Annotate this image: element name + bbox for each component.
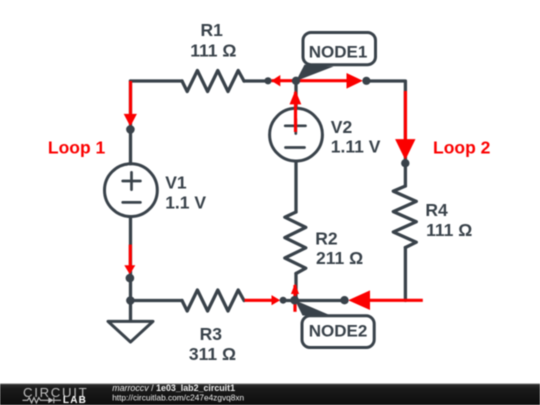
svg-text:311 Ω: 311 Ω	[189, 344, 236, 364]
wire V1 bottom	[129, 217, 132, 301]
svg-text:R4: R4	[425, 200, 448, 220]
node dot F	[340, 296, 348, 304]
svg-text:NODE1: NODE1	[309, 43, 368, 62]
resistor R4	[393, 186, 416, 248]
wire red top horizontal	[272, 79, 348, 82]
arrow down at V1 bottom	[124, 265, 135, 274]
node dot D2 (NODE2)	[290, 296, 299, 305]
wire R4 bottom lead	[404, 248, 407, 301]
red current wires	[130, 81, 423, 312]
arrow right at bottom row	[272, 295, 281, 305]
svg-text:1.1 V: 1.1 V	[165, 193, 206, 213]
arrow up at node B	[290, 90, 302, 104]
svg-text:111 Ω: 111 Ω	[190, 40, 236, 60]
svg-text:R2: R2	[315, 228, 338, 248]
arrow right at top row	[347, 73, 363, 89]
node dot left lower	[126, 274, 135, 283]
callout NODE2	[295, 300, 374, 347]
logo wire glyph	[23, 397, 62, 403]
node dot A	[264, 77, 271, 84]
svg-text:V1: V1	[165, 173, 187, 193]
ground	[108, 321, 153, 342]
wire R4 top lead	[404, 163, 407, 186]
resistor R2	[285, 212, 306, 274]
voltage source V2	[270, 108, 323, 161]
wire bottom-left horizontal	[131, 299, 183, 302]
node dot left upper	[126, 125, 135, 134]
footer bar	[0, 384, 540, 405]
node dot B (NODE1)	[292, 77, 300, 85]
wire red V1 bottom	[129, 245, 132, 266]
node dot R4 top	[401, 159, 409, 167]
wire red bottom after R3	[245, 299, 273, 302]
svg-text:marroccv / 1e03_lab2_circuit1: marroccv / 1e03_lab2_circuit1	[112, 383, 235, 393]
svg-text:R3: R3	[200, 324, 223, 344]
wire ground lead	[129, 301, 132, 321]
wire R2 to node D	[294, 274, 297, 301]
callout NODE1	[296, 33, 376, 82]
voltage source V1	[104, 164, 157, 217]
wire red node D vertical	[293, 285, 296, 312]
svg-text:1.11 V: 1.11 V	[331, 136, 381, 156]
arrow down at left-top	[124, 114, 137, 127]
wire top-left horizontal	[131, 79, 183, 82]
svg-text:R1: R1	[201, 20, 224, 40]
svg-text:V2: V2	[331, 117, 353, 137]
svg-text:NODE2: NODE2	[309, 321, 368, 340]
node dot E ground	[126, 296, 135, 305]
node dots	[126, 77, 410, 305]
wire left column vertical	[129, 81, 132, 164]
svg-text:LAB: LAB	[63, 395, 87, 405]
svg-text:http://circuitlab.com/c247e4zg: http://circuitlab.com/c247e4zgvq8xn	[112, 393, 244, 403]
arrow down at right column	[395, 139, 415, 160]
wire node B to V2	[294, 81, 297, 109]
wire V2 to R2	[294, 161, 297, 212]
wire red node B vertical	[294, 92, 297, 132]
svg-text:Loop 2: Loop 2	[433, 138, 491, 158]
arrow up at node D	[291, 284, 299, 295]
wire node C to top-right corner	[367, 81, 406, 163]
resistor R1	[182, 71, 244, 92]
svg-text:111 Ω: 111 Ω	[426, 220, 472, 240]
svg-text:Loop 1: Loop 1	[48, 137, 106, 157]
wire R1 to node A	[244, 79, 265, 82]
arrow left at bottom row	[348, 290, 370, 310]
node dot C	[362, 77, 370, 85]
arrow left at top row	[271, 75, 280, 86]
wire red right column	[404, 91, 407, 140]
wire bottom middle	[283, 299, 345, 302]
node dot D1	[280, 297, 287, 304]
wire red left-top	[129, 81, 132, 115]
svg-text:211 Ω: 211 Ω	[316, 248, 363, 268]
resistor R3	[182, 290, 244, 311]
wire red bottom right	[369, 299, 423, 302]
